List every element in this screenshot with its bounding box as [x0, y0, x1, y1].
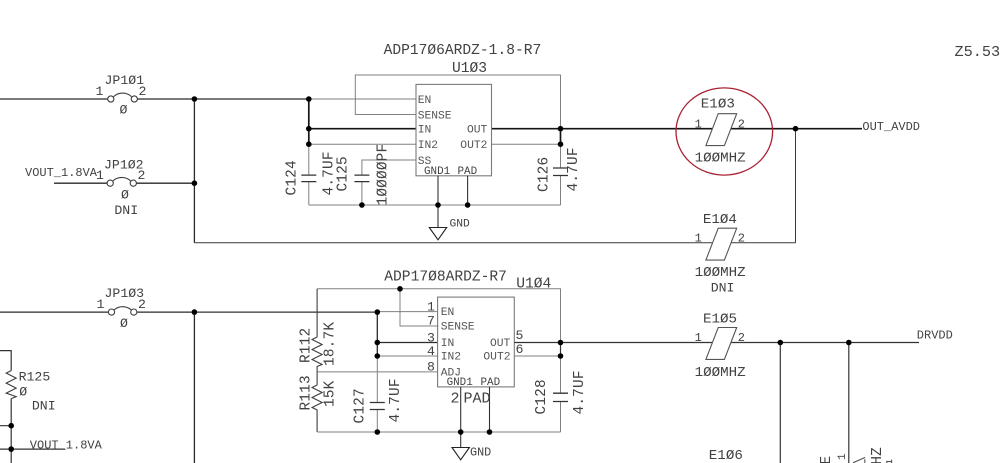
svg-text:1: 1 [837, 453, 849, 460]
svg-text:DNI: DNI [114, 203, 138, 218]
svg-text:VOUT_1.8VA: VOUT_1.8VA [30, 439, 103, 453]
svg-text:C124: C124 [285, 160, 301, 195]
svg-text:EN: EN [418, 95, 432, 107]
svg-text:C125: C125 [336, 156, 352, 191]
svg-text:6: 6 [516, 342, 524, 357]
svg-text:1: 1 [96, 168, 104, 183]
svg-text:ADP17Ø8ARDZ-R7: ADP17Ø8ARDZ-R7 [384, 270, 507, 286]
svg-text:1: 1 [695, 232, 702, 246]
svg-text:C127: C127 [353, 388, 369, 423]
svg-text:2: 2 [738, 331, 745, 345]
svg-text:R113: R113 [299, 375, 315, 410]
svg-text:GND1: GND1 [447, 377, 474, 389]
svg-text:1: 1 [96, 84, 104, 99]
svg-text:7: 7 [427, 314, 435, 329]
svg-text:C128: C128 [534, 379, 550, 414]
svg-text:PAD: PAD [481, 377, 501, 389]
svg-text:VOUT_1.8VA: VOUT_1.8VA [25, 166, 98, 180]
svg-text:E: E [819, 456, 835, 463]
svg-text:OUT2: OUT2 [460, 140, 487, 152]
svg-text:1: 1 [97, 297, 105, 312]
svg-text:2: 2 [738, 118, 745, 132]
svg-text:8: 8 [427, 360, 435, 375]
svg-text:DNI: DNI [711, 281, 735, 296]
svg-text:PAD: PAD [458, 166, 478, 178]
svg-text:SENSE: SENSE [418, 110, 452, 122]
svg-text:SENSE: SENSE [441, 322, 475, 334]
svg-text:E1Ø4: E1Ø4 [703, 212, 737, 228]
svg-text:OUT: OUT [490, 338, 511, 350]
svg-text:U1Ø4: U1Ø4 [516, 277, 551, 293]
svg-text:GND1: GND1 [424, 166, 451, 178]
svg-text:OUT: OUT [467, 125, 488, 137]
svg-text:18.7K: 18.7K [323, 322, 339, 366]
svg-text:4.7UF: 4.7UF [572, 370, 588, 414]
svg-text:1: 1 [695, 331, 702, 345]
svg-text:1ØØMHZ: 1ØØMHZ [695, 365, 746, 381]
svg-text:4.7UF: 4.7UF [566, 147, 582, 191]
svg-text:5: 5 [516, 328, 524, 343]
svg-text:E1Ø5: E1Ø5 [703, 312, 737, 328]
svg-text:1ØØØØPF: 1ØØØØPF [376, 144, 392, 206]
svg-text:Ø: Ø [120, 316, 128, 331]
svg-text:OUT2: OUT2 [483, 352, 510, 364]
svg-text:2: 2 [451, 391, 460, 408]
svg-text:OUT_AVDD: OUT_AVDD [862, 120, 920, 134]
svg-text:15K: 15K [323, 380, 339, 407]
svg-text:R112: R112 [299, 328, 315, 363]
svg-text:Ø: Ø [120, 103, 128, 118]
svg-text:1ØØMHZ: 1ØØMHZ [695, 151, 746, 167]
svg-text:DRVDD: DRVDD [917, 329, 953, 343]
svg-text:ADP17Ø6ARDZ-1.8-R7: ADP17Ø6ARDZ-1.8-R7 [384, 43, 542, 59]
svg-text:EN: EN [441, 307, 455, 319]
svg-text:4.7UF: 4.7UF [388, 378, 404, 422]
svg-text:GND: GND [450, 219, 471, 231]
svg-text:1ØØMHZ: 1ØØMHZ [695, 265, 746, 281]
svg-text:Z5.53: Z5.53 [955, 43, 1000, 61]
svg-text:C126: C126 [537, 157, 553, 192]
svg-text:PAD: PAD [464, 391, 491, 408]
svg-text:R125: R125 [19, 370, 51, 385]
svg-text:GND: GND [470, 446, 491, 460]
svg-text:4: 4 [427, 344, 435, 359]
svg-text:Ø: Ø [19, 385, 27, 400]
svg-text:2: 2 [738, 232, 745, 246]
svg-text:2: 2 [138, 168, 146, 183]
svg-text:1: 1 [695, 118, 702, 132]
svg-text:E1Ø3: E1Ø3 [701, 97, 735, 113]
svg-text:Ø: Ø [121, 188, 129, 203]
svg-text:U1Ø3: U1Ø3 [452, 61, 487, 77]
svg-text:IN: IN [418, 125, 432, 137]
svg-text:1: 1 [427, 300, 435, 315]
svg-text:2: 2 [138, 297, 146, 312]
svg-text:2: 2 [139, 84, 147, 99]
svg-text:IN: IN [441, 338, 455, 350]
svg-text:DNI: DNI [32, 399, 56, 414]
svg-text:IN2: IN2 [441, 352, 461, 364]
svg-text:1ØØMHZ: 1ØØMHZ [870, 447, 886, 463]
svg-text:IN2: IN2 [418, 140, 438, 152]
